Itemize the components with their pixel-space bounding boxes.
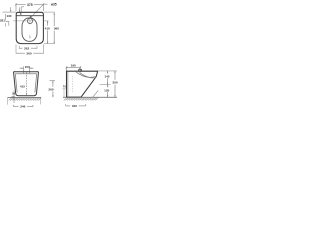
svg-text:560: 560 <box>54 27 59 31</box>
svg-text:262: 262 <box>24 46 29 50</box>
right dim line 560 <box>53 12 55 43</box>
svg-text:145: 145 <box>104 75 109 79</box>
svg-text:190: 190 <box>71 64 76 68</box>
front center dim 415 <box>26 72 28 95</box>
top view outer outline <box>16 12 43 43</box>
front floor end ticks <box>8 98 41 105</box>
svg-text:246: 246 <box>20 105 25 109</box>
front floor hatch <box>9 98 42 101</box>
tap hole circle <box>27 18 32 23</box>
svg-text:375: 375 <box>27 3 33 7</box>
svg-text:ø35: ø35 <box>51 2 57 6</box>
side view outline <box>67 71 98 97</box>
bowl bottom center mark <box>29 37 30 39</box>
right dims extension lines <box>44 12 55 43</box>
side tap stub <box>79 69 82 71</box>
svg-text:300: 300 <box>112 81 117 85</box>
right dim line 410 <box>47 21 49 44</box>
bottom dim 262 <box>19 47 37 49</box>
front left mini dim <box>11 91 15 104</box>
svg-text:281: 281 <box>0 19 5 23</box>
side bottom dim 340 <box>66 104 86 106</box>
front view outline <box>14 72 39 96</box>
side hatch tail diagonal <box>93 90 99 97</box>
front floor line <box>8 96 42 98</box>
svg-text:410: 410 <box>45 26 50 30</box>
bottom dims extension lines <box>16 44 44 54</box>
front bottom dim 246 <box>14 105 33 107</box>
side floor hatch <box>64 98 99 101</box>
tap hole centerline vertical <box>29 16 31 24</box>
svg-text:415: 415 <box>20 84 25 88</box>
side trap dashed line <box>72 76 74 93</box>
svg-text:130: 130 <box>6 14 11 18</box>
right dim 560 arrows <box>54 13 55 15</box>
side wall edge emphasis <box>66 71 68 97</box>
svg-text:155: 155 <box>104 88 109 92</box>
svg-text:340: 340 <box>72 104 77 108</box>
side right dim 300 line <box>114 71 116 97</box>
right dim 410 arrows <box>47 21 48 23</box>
side right dim 145/155 line <box>107 71 109 97</box>
side inner bowl curves <box>76 72 96 78</box>
dim 375 line <box>15 3 45 11</box>
svg-text:360: 360 <box>26 51 31 55</box>
svg-text:260: 260 <box>48 87 53 91</box>
top view bowl oval <box>22 18 37 41</box>
front dim 150 arrows <box>20 66 34 73</box>
front inner side lines <box>15 74 37 93</box>
rear deck line <box>17 15 44 17</box>
left dim arrow 2 (dark tick into body) <box>20 12 22 15</box>
left dim cluster <box>3 7 25 27</box>
front right dim 260 <box>50 81 56 98</box>
leader o35 arrowhead <box>30 16 32 19</box>
side dim 190 line <box>66 66 82 72</box>
side right extension lines <box>98 71 117 85</box>
side floor line <box>63 96 117 98</box>
leader o35 <box>31 4 48 18</box>
tap hole centerline horizontal <box>13 20 34 22</box>
left dim arrow 1 <box>10 10 11 12</box>
bottom dim 360 <box>16 52 44 54</box>
